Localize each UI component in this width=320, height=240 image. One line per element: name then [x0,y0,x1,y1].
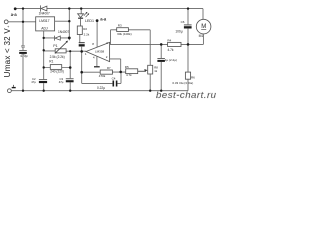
svg-text:M1: M1 [199,34,204,38]
svg-text:R1: R1 [49,60,53,64]
svg-text:R6: R6 [191,76,195,80]
svg-text:R3: R3 [118,23,122,27]
svg-text:C6: C6 [181,20,185,24]
svg-text:2.2k: 2.2k [84,33,90,37]
svg-text:best-chart.ru: best-chart.ru [156,90,217,100]
svg-text:1N4007: 1N4007 [39,12,50,16]
svg-text:1µ (2.2µ): 1µ (2.2µ) [165,58,177,62]
svg-text:4.7k: 4.7k [126,73,132,77]
svg-text:470µ: 470µ [20,54,27,58]
svg-text:a-a: a-a [100,16,107,21]
svg-text:100µ: 100µ [175,29,182,33]
svg-text:4.7k: 4.7k [168,48,174,52]
svg-text:0.33 Ом (3 Ом): 0.33 Ом (3 Ом) [172,81,193,85]
svg-text:LM358: LM358 [95,49,105,53]
svg-text:47µ: 47µ [59,80,64,84]
svg-text:1N4007: 1N4007 [58,30,69,34]
svg-text:30k (100k): 30k (100k) [117,32,132,36]
svg-text:R5: R5 [125,65,129,69]
svg-text:P1: P1 [53,44,57,48]
svg-text:470k: 470k [99,74,106,78]
svg-text:R2: R2 [83,27,87,31]
svg-text:47µ: 47µ [31,80,36,84]
svg-text:C1: C1 [21,45,25,49]
svg-text:LED1: LED1 [85,19,94,23]
svg-text:Umax < 32 V: Umax < 32 V [3,28,12,78]
svg-text:ADJ: ADJ [41,27,48,31]
svg-text:C4: C4 [112,77,116,81]
svg-text:2.5k (2.2k): 2.5k (2.2k) [50,55,65,59]
svg-text:240 (220): 240 (220) [50,70,64,74]
svg-text:a-a: a-a [11,12,18,17]
svg-text:M: M [201,24,206,30]
svg-text:R7: R7 [107,66,111,70]
svg-text:R4: R4 [167,39,171,43]
svg-text:LM317: LM317 [39,19,49,23]
svg-text:0.22µ: 0.22µ [97,86,105,90]
